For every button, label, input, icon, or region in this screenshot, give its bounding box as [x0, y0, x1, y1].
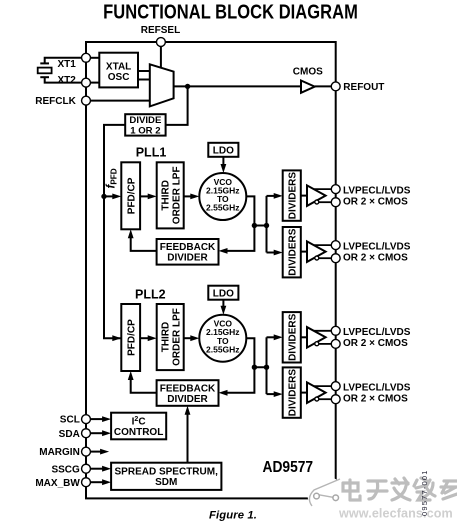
- label PLL1: [136, 146, 167, 160]
- pin XT2: [82, 78, 91, 87]
- svg-text:ORDER LPF: ORDER LPF: [171, 166, 182, 224]
- wire D4 to buffer 4: [301, 392, 308, 394]
- pin OUT1: [331, 185, 340, 194]
- pin SSCG: [82, 464, 91, 473]
- svg-text:I2C: I2C: [132, 416, 146, 427]
- node VCO1 feedback junction: [252, 223, 257, 228]
- label PLL2: [135, 287, 166, 301]
- pin OUT2B: [331, 254, 340, 263]
- label MAX_BW: [35, 478, 80, 489]
- svg-text:OR 2 × CMOS: OR 2 × CMOS: [343, 196, 408, 207]
- svg-text:OR 2 × CMOS: OR 2 × CMOS: [343, 252, 408, 263]
- svg-text:ORDER LPF: ORDER LPF: [171, 308, 182, 366]
- wire SSCG to spread spectrum: [90, 466, 111, 472]
- svg-text:AD9577: AD9577: [263, 459, 314, 476]
- svg-text:LVPECL/LVDS: LVPECL/LVDS: [343, 185, 411, 196]
- svg-text:THIRD: THIRD: [160, 322, 171, 353]
- node A junction: [185, 84, 190, 89]
- svg-text:CMOS: CMOS: [293, 67, 323, 78]
- wire to DIVIDERS D4: [267, 391, 283, 397]
- pin MAX_BW: [82, 478, 91, 487]
- chip outline box: [86, 42, 336, 498]
- pin REFCLK: [82, 96, 91, 105]
- wire XTAL OSC to mux lower: [138, 79, 151, 81]
- arrow into PFD/CP2: [112, 335, 121, 341]
- svg-text:2.55GHz: 2.55GHz: [206, 344, 240, 354]
- wire LDO1 to VCO1: [221, 157, 227, 173]
- svg-text:OR 2 × CMOS: OR 2 × CMOS: [343, 338, 408, 349]
- svg-text:DIVIDERS: DIVIDERS: [287, 172, 298, 220]
- svg-text:SSCG: SSCG: [51, 464, 80, 475]
- pin XT1: [82, 53, 91, 62]
- wire REFCLK pin to mux: [90, 100, 151, 102]
- svg-text:1 OR 2: 1 OR 2: [130, 126, 160, 137]
- block LDO PLL1: [208, 143, 238, 157]
- wire PFD/CP1 to LPF1: [140, 194, 157, 200]
- svg-text:DIVIDERS: DIVIDERS: [287, 228, 298, 276]
- svg-text:www.elecfans.com: www.elecfans.com: [338, 507, 453, 521]
- pin OUT1B: [331, 198, 340, 207]
- label LVPECL/LVDS OR 2 x CMOS pair 2: [343, 241, 411, 263]
- wire divider split PLL1: [266, 196, 268, 253]
- wire VCO1 to feedback divider: [219, 226, 255, 254]
- wire node A down to DIVIDE 1 OR 2: [166, 86, 188, 125]
- svg-text:THIRD: THIRD: [160, 180, 171, 211]
- svg-text:XTAL: XTAL: [106, 62, 131, 73]
- block DIVIDE 1 OR 2: [125, 114, 165, 136]
- svg-text:2.55GHz: 2.55GHz: [206, 203, 240, 213]
- oscillator VCO PLL1: [199, 173, 246, 220]
- wire XT1 pin to XTAL OSC: [90, 57, 99, 59]
- title FUNCTIONAL BLOCK DIAGRAM: [103, 0, 358, 23]
- label REFSEL: [141, 25, 180, 36]
- wire LDO2 to VCO2: [221, 300, 227, 315]
- wire XT2 pin to XTAL OSC: [90, 82, 99, 84]
- pin MARGIN: [82, 447, 91, 456]
- buffer CMOS refout: [301, 81, 315, 93]
- pin REFOUT: [331, 82, 340, 91]
- svg-text:LDO: LDO: [213, 288, 234, 299]
- wire XTAL OSC to mux upper: [138, 70, 151, 72]
- wire CMOS buffer to REFOUT pin: [315, 85, 332, 87]
- node fPFD junction: [101, 194, 106, 199]
- svg-text:XT2: XT2: [57, 75, 76, 86]
- svg-text:Figure 1.: Figure 1.: [209, 509, 257, 521]
- label XT1: [57, 59, 76, 70]
- label LVPECL/LVDS OR 2 x CMOS pair 3: [343, 327, 411, 349]
- svg-text:CONTROL: CONTROL: [114, 427, 163, 438]
- watermark chinese text www.elecfans.com: [338, 507, 453, 521]
- node VCO2 divider junction: [264, 365, 269, 370]
- svg-text:SCL: SCL: [60, 415, 80, 426]
- wire MARGIN input arrow: [90, 449, 109, 455]
- svg-text:PFD/CP: PFD/CP: [126, 177, 137, 214]
- buffer output pair 4: [307, 382, 331, 403]
- pin OUT2: [331, 241, 340, 250]
- svg-text:PFD/CP: PFD/CP: [126, 319, 137, 356]
- node VCO1 divider junction: [264, 223, 269, 228]
- svg-text:LDO: LDO: [213, 145, 234, 156]
- label MARGIN: [39, 447, 80, 458]
- pin OUT4B: [331, 395, 340, 404]
- block LDO PLL2: [208, 286, 238, 300]
- block PFD/CP PLL2: [121, 304, 140, 371]
- svg-text:SDA: SDA: [59, 429, 80, 440]
- svg-text:LVPECL/LVDS: LVPECL/LVDS: [343, 327, 411, 338]
- block FEEDBACK DIVIDER PLL2: [157, 380, 219, 406]
- pin SCL: [82, 415, 91, 424]
- oscillator VCO PLL2: [199, 315, 246, 362]
- block FEEDBACK DIVIDER PLL1: [157, 239, 219, 265]
- crystal Y1: [38, 63, 52, 77]
- wire to DIVIDERS D1: [267, 193, 283, 199]
- wire D1 to buffer 1: [301, 195, 308, 197]
- svg-text:DIVIDERS: DIVIDERS: [287, 369, 298, 417]
- svg-text:PLL1: PLL1: [136, 146, 167, 160]
- block PFD/CP PLL1: [121, 162, 140, 229]
- label SSCG: [51, 464, 80, 475]
- svg-text:OR 2 × CMOS: OR 2 × CMOS: [343, 393, 408, 404]
- wire spread spectrum to feedback divider 2: [185, 406, 191, 463]
- svg-text:REFOUT: REFOUT: [343, 82, 384, 93]
- wire feedback divider 2 to PFD/CP2: [128, 371, 157, 393]
- svg-text:LVPECL/LVDS: LVPECL/LVDS: [343, 241, 411, 252]
- label SCL: [60, 415, 80, 426]
- svg-text:XT1: XT1: [57, 59, 76, 70]
- label AD9577: [263, 459, 314, 476]
- wire XT2 pin to crystal: [45, 78, 82, 83]
- label REFCLK: [35, 96, 76, 107]
- block XTAL OSC: [99, 53, 138, 88]
- svg-text:MARGIN: MARGIN: [39, 447, 80, 458]
- wire LPF1 to VCO1: [184, 194, 200, 200]
- svg-text:DIVIDER: DIVIDER: [167, 394, 208, 405]
- node VCO2 feedback junction: [252, 365, 257, 370]
- pin OUT3B: [331, 339, 340, 348]
- wire VCO1 output to divider node: [246, 196, 266, 225]
- label fPFD: [106, 168, 119, 188]
- svg-text:SDM: SDM: [155, 477, 177, 488]
- pin REFSEL: [156, 38, 165, 47]
- wire D3 to buffer 3: [301, 336, 308, 338]
- buffer output pair 2: [307, 241, 331, 262]
- buffer output pair 1: [307, 185, 331, 206]
- wire DIVIDE output down to both PLLs: [104, 125, 125, 338]
- watermark logo circle: [308, 476, 345, 513]
- block THIRD ORDER LPF PLL2: [157, 304, 184, 370]
- block DIVIDERS D3: [283, 312, 301, 362]
- label CMOS: [293, 67, 323, 78]
- block THIRD ORDER LPF PLL1: [157, 162, 184, 228]
- wire junction to PFD/CP1: [104, 194, 121, 200]
- wire to DIVIDERS D3: [267, 334, 283, 340]
- watermark chinese characters: [343, 478, 457, 500]
- pin OUT4: [331, 382, 340, 391]
- label LVPECL/LVDS OR 2 x CMOS pair 4: [343, 382, 411, 404]
- svg-text:OSC: OSC: [108, 72, 130, 83]
- caption Figure 1.: [209, 509, 257, 521]
- svg-text:FUNCTIONAL BLOCK DIAGRAM: FUNCTIONAL BLOCK DIAGRAM: [103, 0, 358, 23]
- svg-text:09577-001: 09577-001: [420, 469, 429, 516]
- block DIVIDERS D1: [283, 170, 301, 220]
- svg-text:PLL2: PLL2: [135, 287, 166, 301]
- svg-text:DIVIDERS: DIVIDERS: [287, 313, 298, 361]
- label SDA: [59, 429, 80, 440]
- wire SDA to I2C control: [90, 430, 111, 436]
- label XT2: [57, 75, 76, 86]
- wire PFD/CP2 to LPF2: [140, 335, 157, 341]
- mux reference select: [150, 64, 174, 106]
- wire to DIVIDERS D2: [267, 250, 283, 256]
- svg-text:SPREAD SPECTRUM,: SPREAD SPECTRUM,: [115, 467, 219, 478]
- svg-text:DIVIDER: DIVIDER: [167, 253, 208, 264]
- block DIVIDERS D4: [283, 367, 301, 417]
- wire MAX_BW to spread spectrum: [90, 479, 111, 485]
- wire LPF2 to VCO2: [184, 335, 200, 341]
- pin SDA: [82, 429, 91, 438]
- svg-text:MAX_BW: MAX_BW: [35, 478, 80, 489]
- wire divider split PLL2: [266, 337, 268, 394]
- svg-text:FEEDBACK: FEEDBACK: [160, 242, 216, 253]
- svg-text:FEEDBACK: FEEDBACK: [160, 383, 216, 394]
- svg-text:fPFD: fPFD: [106, 168, 119, 188]
- block SPREAD SPECTRUM SDM: [111, 463, 221, 490]
- wire SCL to I2C control: [90, 416, 111, 422]
- wire D2 to buffer 2: [301, 251, 308, 253]
- svg-text:REFCLK: REFCLK: [35, 96, 76, 107]
- wire XT1 pin to crystal: [45, 58, 82, 63]
- wire VCO2 output to divider node: [246, 338, 266, 367]
- svg-text:LVPECL/LVDS: LVPECL/LVDS: [343, 382, 411, 393]
- wire mux output to node A: [174, 85, 301, 87]
- wire VCO2 to feedback divider 2: [219, 367, 255, 396]
- block DIVIDERS D2: [283, 227, 301, 277]
- label REFOUT: [343, 82, 384, 93]
- label LVPECL/LVDS OR 2 x CMOS pair 1: [343, 185, 411, 207]
- buffer output pair 3: [307, 327, 331, 348]
- wire REFSEL to mux: [160, 46, 162, 68]
- block I2C CONTROL: [111, 413, 166, 440]
- pin OUT3: [331, 326, 340, 335]
- wire feedback divider 1 to PFD/CP1: [128, 229, 157, 251]
- svg-text:REFSEL: REFSEL: [141, 25, 180, 36]
- label figure code 09577-001: [420, 469, 429, 516]
